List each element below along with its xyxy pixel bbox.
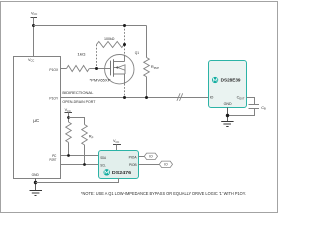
svg-text:GND: GND — [224, 101, 232, 106]
ground uC — [30, 191, 43, 196]
node uC gnd — [34, 181, 37, 184]
transistor Q1 PMOS — [90, 50, 140, 84]
wire uC GND lead — [35, 179, 37, 191]
svg-text:1kΩ: 1kΩ — [77, 52, 85, 57]
node rail x dashed — [123, 24, 126, 27]
wire P1OX to gate — [61, 68, 67, 70]
node gate junction — [95, 67, 98, 70]
svg-text:DS28E39: DS28E39 — [221, 78, 241, 83]
IC U1 DS28E39 — [209, 61, 247, 108]
microcontroller uC box — [14, 57, 61, 179]
resistor RPUP — [144, 26, 160, 98]
wire DS28E39 GND lead — [227, 108, 229, 122]
power VCC DS2476 — [113, 139, 121, 151]
capacitor CB — [249, 105, 267, 111]
node SCL pullup — [83, 163, 86, 166]
svg-text:OPEN-DRAIN PORT: OPEN-DRAIN PORT — [62, 100, 96, 104]
wire CEXT branch — [247, 98, 255, 105]
svg-text:PORT: PORT — [49, 157, 56, 162]
svg-text:SDA: SDA — [100, 155, 106, 160]
svg-text:DS2476: DS2476 — [112, 170, 132, 175]
power VCC I2C pullups — [65, 108, 73, 122]
wire SDA — [61, 155, 99, 157]
wire dashed rail to Q1 drain — [124, 26, 126, 55]
node IO x dashed — [123, 96, 126, 99]
svg-text:GND: GND — [32, 172, 39, 177]
wire SCL — [61, 164, 99, 166]
svg-text:P1OY: P1OY — [49, 95, 58, 100]
svg-text:BIDIRECTIONAL: BIDIRECTIONAL — [62, 91, 93, 95]
resistor RP sda — [66, 122, 72, 156]
resistor 100k — [97, 36, 125, 48]
border frame — [1, 2, 278, 213]
wire PIOA to tag — [139, 156, 145, 158]
svg-text:P1OX: P1OX — [49, 67, 58, 72]
wire IO bus P1OY to DS28E39 — [61, 97, 209, 99]
power VCC top-left — [31, 11, 38, 56]
cable break symbol — [177, 93, 183, 101]
svg-text:Q1: Q1 — [135, 50, 139, 55]
node DS28E39 gnd — [226, 114, 229, 117]
ground DS28E39 — [221, 122, 233, 127]
svg-text:*PMV65XP: *PMV65XP — [90, 79, 112, 83]
node IO x RPUP — [145, 96, 148, 99]
label bidirectional open-drain port — [62, 91, 96, 104]
resistor RP scl — [82, 125, 94, 165]
IC U2 DS2476 — [99, 151, 139, 179]
svg-text:100kΩ: 100kΩ — [104, 36, 115, 41]
svg-text:SCL: SCL — [100, 162, 106, 167]
svg-text:PIOB: PIOB — [129, 162, 137, 167]
svg-text:IO: IO — [149, 155, 153, 159]
svg-text:IO: IO — [210, 95, 214, 100]
resistor 1k — [67, 52, 90, 72]
wire VCC top rail — [34, 25, 147, 27]
node pullup tee — [67, 116, 70, 119]
node SDA pullup — [67, 154, 70, 157]
svg-text:µC: µC — [33, 118, 40, 123]
net tag IO (PIOA) — [144, 153, 157, 159]
wire gnd bus to DS2476 — [36, 178, 119, 183]
svg-text:*NOTE: USE A Q1 LOW-IMPEDANCE: *NOTE: USE A Q1 LOW-IMPEDANCE BYPASS OR … — [81, 191, 246, 196]
svg-text:IO: IO — [164, 163, 168, 167]
wire PIOB to tag — [139, 164, 160, 166]
wire dashed 100k left leg — [96, 45, 98, 69]
svg-text:PIOA: PIOA — [129, 155, 137, 160]
wire CB to ground node — [228, 109, 255, 116]
wire pullup tee to right — [69, 118, 85, 125]
wire dashed Q1 source to IO line — [124, 84, 126, 98]
node 100k right end — [123, 43, 126, 46]
net tag IO (PIOB) — [159, 161, 172, 167]
node VCC rail junction — [32, 24, 35, 27]
